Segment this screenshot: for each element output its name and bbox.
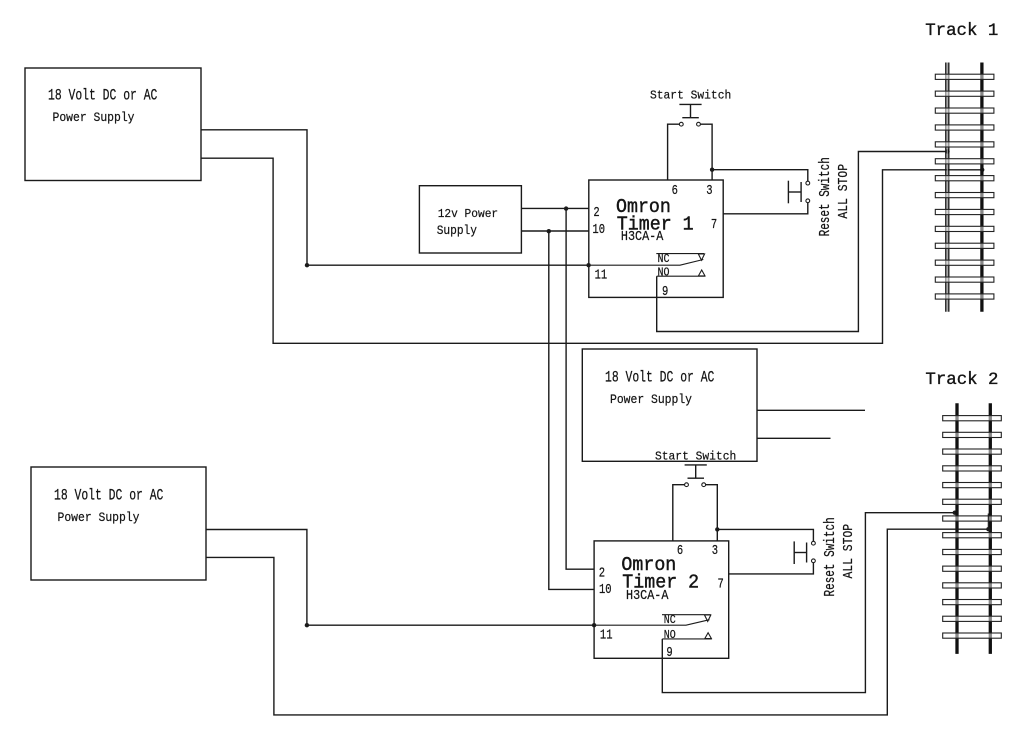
svg-text:12v Power: 12v Power (438, 208, 498, 221)
svg-text:2: 2 (599, 565, 605, 581)
power supply PS1 (Track 1 18V supply) (25, 68, 201, 181)
svg-text:Reset Switch: Reset Switch (821, 517, 838, 596)
svg-text:Track 1: Track 1 (925, 22, 998, 41)
svg-text:10: 10 (592, 222, 605, 238)
svg-text:10: 10 (599, 582, 612, 598)
svg-text:11: 11 (600, 627, 613, 643)
svg-text:6: 6 (677, 543, 683, 559)
power supply PS2 (12v Power Supply) (419, 186, 521, 253)
wire 12v to timer1 pin 10 (521, 230, 588, 232)
wire PS4 output B to Track2 right rail (206, 529, 988, 715)
track 1 (rail ladder) (925, 22, 998, 312)
node junction dot pin3-T2 (715, 527, 719, 531)
wire SW2 left contact to timer2 pin 6 (673, 485, 685, 541)
node junction dot B (305, 623, 309, 627)
relay arm of U1 (common from pin 11) (589, 260, 704, 266)
svg-text:ALL STOP: ALL STOP (835, 164, 852, 219)
wire 12v to timer1 pin 2 (521, 207, 588, 209)
node junction dot pin3-T1 (710, 168, 714, 172)
node junction dot pin11-T2 (592, 623, 596, 627)
pushbutton SW2 (Start Switch, Track 2) (655, 449, 736, 486)
svg-text:11: 11 (595, 267, 608, 283)
relay contact NO of U2 (662, 630, 712, 643)
power supply PS3 (Track 2 18V supply, middle) (582, 349, 757, 461)
timer U2 (Omron Timer 2 H3CA-A) (594, 541, 729, 660)
node junction dot track1 left rail (945, 149, 949, 153)
svg-text:Start Switch: Start Switch (650, 88, 731, 103)
pushbutton RSW1 (Reset Switch / ALL STOP, Track 1) (788, 157, 851, 236)
wire RSW2 to timer2 pin 7 (729, 563, 814, 574)
svg-text:7: 7 (718, 576, 724, 592)
svg-text:2: 2 (593, 205, 599, 221)
wire RSW1 to timer1 pin 7 (723, 203, 808, 214)
node junction dot A (305, 263, 309, 267)
wire timer1 pin 9 to Track1 left rail (657, 152, 946, 332)
svg-text:ALL STOP: ALL STOP (840, 524, 857, 579)
wire PS1 output A to node pin11-T1 (201, 130, 307, 265)
node junction dot pin2 bus (564, 206, 568, 210)
wire PS3 output stub B (757, 437, 831, 439)
wire stub on track2 right rail (987, 514, 989, 530)
svg-text:18 Volt DC or AC: 18 Volt DC or AC (54, 488, 163, 505)
svg-text:Power Supply: Power Supply (610, 392, 692, 407)
svg-text:6: 6 (672, 183, 678, 199)
svg-text:H3CA-A: H3CA-A (621, 228, 664, 244)
svg-text:NO: NO (658, 267, 670, 280)
wire SW1 left contact to timer1 pin 6 (668, 124, 680, 180)
wire PS3 output stub A (757, 409, 865, 411)
wire pin3-T1 to reset switch RSW1 (712, 170, 808, 182)
node junction dot track2 right rail (986, 527, 990, 531)
pushbutton SW1 (Start Switch, Track 1) (650, 88, 731, 126)
svg-text:3: 3 (712, 543, 718, 559)
relay contact NC of U2 (662, 614, 711, 627)
timer U1 (Omron Timer 1 H3CA-A) (589, 180, 723, 299)
svg-text:Reset Switch: Reset Switch (817, 157, 834, 236)
wire timer2 pin 9 to Track2 left rail (662, 513, 955, 693)
wire pin3-T2 to reset switch RSW2 (717, 529, 813, 541)
wire SW1 right contact to timer1 pin 3 (701, 124, 713, 180)
wire pin2 bus down to timer2 pin 2 (566, 208, 594, 569)
svg-text:NO: NO (664, 630, 676, 643)
node junction dot track1 right rail (980, 168, 984, 172)
svg-text:9: 9 (662, 284, 668, 300)
relay arm of U2 (common from pin 11) (594, 620, 709, 626)
svg-text:9: 9 (666, 645, 672, 661)
svg-text:7: 7 (711, 217, 717, 233)
node junction dot pin10 bus (547, 229, 551, 233)
pushbutton RSW2 (Reset Switch / ALL STOP, Track 2) (794, 517, 856, 596)
svg-text:Supply: Supply (437, 223, 477, 238)
svg-text:18 Volt DC or AC: 18 Volt DC or AC (605, 370, 714, 387)
relay contact NC of U1 (656, 253, 704, 266)
wire PS1 output B to Track1 right rail (201, 158, 980, 343)
track 2 (rail ladder) (925, 371, 1001, 654)
wire pin10 bus down to timer2 pin 10 (549, 231, 594, 589)
node junction dot pin11-T1 (586, 263, 590, 267)
svg-text:3: 3 (706, 183, 712, 199)
svg-text:H3CA-A: H3CA-A (626, 587, 669, 603)
svg-text:18 Volt DC or AC: 18 Volt DC or AC (48, 88, 157, 105)
svg-text:Power Supply: Power Supply (53, 111, 135, 126)
wire SW2 right contact to timer2 pin 3 (706, 485, 718, 541)
svg-text:Track 2: Track 2 (925, 371, 998, 390)
svg-text:Start Switch: Start Switch (655, 449, 736, 464)
relay contact NO of U1 (657, 267, 705, 280)
wire node A to timer1 pin 11 (307, 264, 589, 266)
power supply PS4 (Track 2 18V supply, bottom left) (31, 467, 206, 580)
node junction dot track2 left rail (953, 511, 957, 515)
svg-text:NC: NC (658, 253, 670, 266)
wire PS4 output A to node pin11-T2 (206, 530, 307, 626)
wire node B to timer2 pin 11 (307, 624, 594, 626)
svg-text:Power Supply: Power Supply (58, 510, 140, 525)
